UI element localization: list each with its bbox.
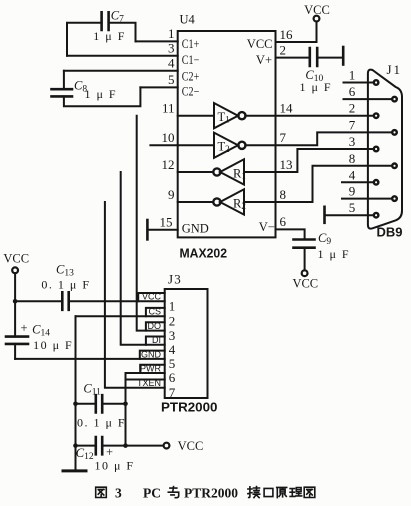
svg-text:0. 1 μ F: 0. 1 μ F — [77, 416, 126, 430]
wire U4 pin7 jog to DB9 pin7 — [276, 132, 395, 145]
caption hanzi kou (interface-2) — [264, 488, 273, 496]
svg-text:9: 9 — [349, 184, 356, 199]
wire C10 to terminator — [317, 57, 343, 59]
wire U4 pin2 to C10 — [276, 57, 310, 59]
svg-text:MAX202: MAX202 — [180, 246, 228, 261]
wire U4 pin16 to VCC — [276, 22, 317, 42]
svg-text:C2−: C2− — [182, 84, 200, 98]
svg-text:1 μ F: 1 μ F — [300, 80, 333, 94]
svg-text:15: 15 — [160, 215, 173, 230]
capacitor C9 — [294, 240, 315, 248]
wire T1 output internal — [245, 115, 275, 117]
svg-text:1: 1 — [169, 299, 176, 314]
caption hanzi yu (with) — [168, 487, 178, 498]
svg-text:C14: C14 — [32, 323, 50, 339]
wire CS row to J3 pin2 — [76, 315, 165, 317]
svg-text:3: 3 — [169, 328, 176, 343]
wire T2 input internal — [178, 144, 214, 146]
svg-text:1 μ F: 1 μ F — [318, 247, 351, 261]
wire U4 pin3 — [67, 55, 178, 57]
wire CS rail to C11 left — [76, 403, 96, 405]
VCC terminal right of C12 — [164, 439, 204, 453]
svg-text:5: 5 — [169, 356, 176, 371]
wire C7 left to pin3 — [67, 23, 102, 56]
junction node PWR rail C12 — [123, 443, 128, 448]
caption hanzi jie (interface-1) — [248, 487, 260, 498]
svg-text:4: 4 — [168, 56, 175, 71]
svg-text:10 μ F: 10 μ F — [33, 338, 73, 352]
wire U4 pin9 down to TXEN J3 pin7 — [105, 202, 165, 388]
svg-text:7: 7 — [349, 117, 356, 132]
J3 label box DI — [146, 337, 165, 345]
svg-text:C1+: C1+ — [182, 37, 200, 51]
capacitor C14 polarized — [6, 337, 28, 344]
VCC terminal at C9 — [292, 270, 318, 290]
svg-text:1: 1 — [349, 68, 356, 83]
svg-text:GND: GND — [182, 222, 209, 236]
wire VCC row to C13 — [15, 300, 62, 302]
wire PWR rail down to C11 C12 — [125, 373, 127, 446]
svg-text:GND: GND — [141, 349, 162, 359]
wire VCC terminal down to C14 — [14, 273, 16, 336]
J1 pin contact 6 — [392, 97, 397, 102]
svg-text:6: 6 — [169, 370, 176, 385]
wire R2 input internal — [244, 201, 276, 203]
svg-text:7: 7 — [280, 130, 287, 145]
caption hanzi li (principle-2) — [290, 488, 302, 497]
caption hanzi tu (diagram) — [304, 487, 315, 497]
wire CS rail to C12 left — [76, 445, 96, 447]
J1 pin contact 3 — [374, 147, 379, 152]
svg-text:V−: V− — [259, 220, 275, 234]
svg-text:16: 16 — [280, 27, 294, 42]
J1 pin contact 1 — [374, 80, 379, 85]
ground bar bottom left — [63, 469, 86, 472]
caption hanzi yuan (principle-1) — [277, 487, 287, 497]
svg-text:C2+: C2+ — [182, 69, 200, 83]
wire GND row to J3 pin5 — [15, 358, 165, 360]
J1 pin contact 7 — [392, 130, 397, 135]
svg-text:VCC: VCC — [3, 252, 29, 266]
svg-text:C11: C11 — [83, 382, 101, 398]
J3 label box GND — [140, 351, 165, 359]
IC U4 MAX202 body — [178, 31, 276, 237]
svg-text:2: 2 — [169, 313, 176, 328]
svg-text:DB9: DB9 — [377, 224, 403, 239]
receiver R2 triangle — [213, 189, 244, 214]
wire U4 pin8 jog to DB9 pin8 — [276, 166, 395, 202]
ground bar terminator C10 — [342, 47, 345, 65]
receiver R1 triangle — [213, 159, 244, 184]
svg-text:PTR2000: PTR2000 — [184, 486, 238, 501]
wire U4 pin14 to DB9 pin2 — [276, 115, 377, 117]
capacitor C10 — [310, 48, 317, 66]
wire C12 right to VCC terminal — [102, 445, 163, 447]
J3 label box TXEN — [126, 380, 165, 388]
wire U4 pin12 down to DI J3 pin4 — [121, 172, 165, 345]
wire R1 output internal — [178, 171, 214, 173]
svg-text:VCC: VCC — [304, 3, 330, 17]
ground stub bar pin15 — [146, 220, 149, 239]
wire T2 output internal — [245, 144, 275, 146]
junction node PWR rail C11 — [123, 402, 128, 407]
svg-text:DO: DO — [148, 321, 162, 331]
buffer T2 triangle — [214, 133, 245, 158]
wire C13 to J3 pin1 — [69, 300, 165, 302]
wire DB9 pin1 stub — [344, 82, 377, 84]
J1 pin contact 5 — [374, 213, 379, 218]
svg-text:J1: J1 — [387, 62, 403, 77]
capacitor C7 — [102, 12, 109, 30]
svg-text:5: 5 — [349, 200, 356, 215]
wire DB9 pin9 stub — [342, 198, 395, 200]
junction node CS rail C11 — [73, 402, 78, 407]
wire C14 bottom to GND row — [14, 344, 16, 359]
svg-text:V+: V+ — [256, 53, 272, 67]
VCC terminal top — [304, 3, 330, 22]
svg-text:J3: J3 — [168, 272, 182, 287]
svg-text:CS: CS — [148, 307, 161, 317]
J3 label box VCC — [138, 293, 165, 301]
svg-text:C9: C9 — [318, 231, 331, 247]
wire R1 input internal — [244, 171, 276, 173]
wire PWR row J3 pin6 — [126, 372, 165, 374]
svg-text:C1−: C1− — [182, 53, 200, 67]
capacitor C8 — [52, 89, 73, 96]
svg-text:6: 6 — [349, 84, 356, 99]
ground stub bar DB9 pin5 — [323, 207, 326, 223]
svg-text:7: 7 — [169, 385, 176, 400]
svg-text:1: 1 — [168, 26, 175, 41]
svg-text:PC: PC — [143, 486, 161, 501]
J1 pin contact 9 — [392, 196, 397, 201]
svg-text:2: 2 — [280, 42, 287, 57]
wire T1 input internal — [178, 115, 214, 117]
wire U4 pin10 stub — [150, 144, 177, 146]
svg-text:8: 8 — [349, 151, 356, 166]
svg-text:5: 5 — [168, 72, 175, 87]
junction node VCC rail row1 — [13, 299, 18, 304]
wire C9 to VCC terminal — [304, 248, 306, 271]
svg-text:12: 12 — [162, 157, 175, 172]
svg-text:3: 3 — [168, 41, 175, 56]
buffer T1 triangle — [214, 103, 245, 128]
svg-text:4: 4 — [349, 167, 356, 182]
svg-text:3: 3 — [115, 486, 122, 501]
svg-text:T2: T2 — [218, 140, 230, 155]
wire U4 pin4 — [64, 70, 178, 72]
capacitor C12 polarized — [96, 437, 102, 454]
J3 label box PWR — [140, 365, 165, 373]
svg-text:14: 14 — [280, 101, 294, 116]
svg-text:VCC: VCC — [247, 37, 273, 51]
svg-text:C7: C7 — [111, 9, 124, 25]
capacitor C11 — [96, 395, 102, 412]
wire CS rail down to ground — [75, 316, 77, 471]
svg-text:C12: C12 — [76, 446, 94, 462]
svg-text:DI: DI — [152, 335, 161, 345]
svg-text:9: 9 — [168, 187, 175, 202]
svg-text:+: + — [21, 321, 28, 335]
svg-text:3: 3 — [349, 134, 356, 149]
svg-text:4: 4 — [169, 342, 176, 357]
wire R2 output internal — [178, 201, 214, 203]
svg-text:1 μ F: 1 μ F — [93, 29, 126, 43]
svg-text:U4: U4 — [180, 13, 196, 27]
connector J1 DB9 outline — [368, 70, 402, 229]
svg-text:10: 10 — [162, 130, 175, 145]
svg-text:2: 2 — [349, 101, 356, 116]
caption figure 3 — [96, 487, 315, 498]
J1 pin contact 8 — [392, 164, 397, 169]
svg-text:VCC: VCC — [142, 292, 162, 302]
wire C8 bottom to pin5 — [64, 87, 140, 106]
svg-text:VCC: VCC — [292, 277, 318, 291]
wire DB9 pin5 — [325, 214, 377, 216]
svg-text:8: 8 — [280, 187, 287, 202]
svg-text:T1: T1 — [218, 110, 230, 125]
svg-text:0. 1 μ F: 0. 1 μ F — [41, 278, 90, 292]
svg-text:TXEN: TXEN — [137, 378, 161, 388]
svg-text:6: 6 — [280, 214, 287, 229]
svg-text:11: 11 — [162, 101, 175, 116]
svg-text:PWR: PWR — [140, 363, 161, 373]
J3 label box CS — [146, 308, 165, 316]
J1 pin contact 4 — [374, 180, 379, 185]
svg-text:10 μ F: 10 μ F — [95, 459, 135, 473]
wire pin15 to ground stub — [147, 229, 177, 231]
svg-text:PTR2000: PTR2000 — [161, 399, 218, 414]
svg-text:1 μ F: 1 μ F — [85, 87, 118, 101]
wire C7 right to pin1 — [109, 23, 136, 42]
svg-text:13: 13 — [280, 157, 293, 172]
J1 pin contact 2 — [374, 113, 379, 118]
wire U4 pin11 down to DO J3 pin3 — [137, 116, 165, 331]
svg-text:+: + — [106, 445, 113, 459]
svg-text:C13: C13 — [56, 263, 74, 279]
wire C11 right to PWR rail — [102, 403, 125, 405]
wire U4 pin13 jog to DB9 pin3 — [276, 149, 377, 172]
wire U4 pin6 to C9 — [276, 229, 305, 239]
caption hanzi tu (figure) — [96, 487, 107, 497]
wire DB9 pin4 stub — [342, 181, 376, 183]
wire DB9 pin6 stub — [344, 98, 395, 100]
wire pin4 to C8 top — [63, 71, 65, 89]
J3 label box DO — [146, 322, 165, 330]
connector J3 PTR2000 body — [165, 289, 208, 398]
junction node CS rail C12 — [73, 443, 78, 448]
VCC terminal bottom left — [3, 252, 29, 274]
wire U4 pin5 — [140, 86, 177, 88]
svg-text:VCC: VCC — [178, 439, 204, 453]
wire U4 pin1 — [136, 40, 178, 42]
capacitor C13 — [62, 292, 68, 310]
